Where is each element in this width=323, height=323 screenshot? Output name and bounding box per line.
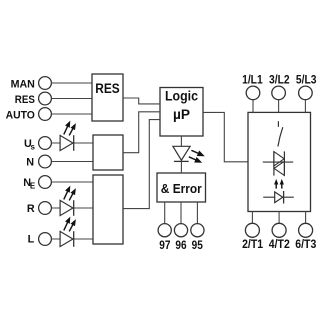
terminal 97 label — [159, 238, 170, 252]
wire Logic to Error block — [180, 136, 182, 173]
svg-text:96: 96 — [175, 238, 186, 252]
switch contact S1 — [278, 121, 283, 146]
svg-text:N: N — [26, 156, 34, 168]
wire N to supply box — [51, 161, 93, 163]
terminal 5/L3 label — [296, 73, 317, 87]
terminal 96 — [174, 224, 187, 237]
svg-text:4/T2: 4/T2 — [269, 237, 290, 251]
svg-text:RES: RES — [95, 81, 119, 96]
svg-text:Logic: Logic — [165, 89, 198, 104]
svg-text:R: R — [27, 203, 35, 215]
terminal L label — [28, 234, 35, 246]
svg-text:5/L3: 5/L3 — [296, 73, 317, 87]
block Logic uP U1 — [160, 88, 203, 137]
block RES (reset logic) — [92, 74, 123, 121]
terminal N label — [26, 156, 34, 168]
terminal AUTO label — [6, 110, 35, 122]
svg-text:E: E — [30, 181, 36, 190]
terminal RES — [39, 92, 52, 105]
svg-text:1/L1: 1/L1 — [242, 73, 263, 87]
terminal 1/L1 label — [242, 73, 263, 87]
terminal 2/T1 label — [242, 237, 263, 251]
svg-text:RES: RES — [15, 94, 35, 106]
wire Error to terminal 97 — [164, 202, 166, 224]
svg-text:s: s — [30, 142, 35, 151]
svg-text:97: 97 — [159, 238, 170, 252]
terminal 5/L3 — [299, 86, 313, 100]
svg-text:95: 95 — [192, 238, 203, 252]
svg-text:L: L — [28, 234, 35, 246]
optocoupler light arrows — [274, 179, 284, 189]
wire RES box to Logic pin1 — [123, 98, 160, 104]
terminal 95 — [191, 224, 204, 237]
terminal R label — [27, 203, 35, 215]
wire 1/L1 stem — [252, 100, 254, 113]
wire 6/T3 stem — [305, 212, 307, 224]
terminal MAN label — [11, 79, 35, 91]
wire 2/T1 stem — [251, 212, 253, 224]
triac Q1 — [263, 151, 293, 175]
terminal N — [39, 155, 52, 168]
terminal Us — [39, 137, 52, 150]
svg-text:AUTO: AUTO — [6, 110, 35, 122]
wire 4/T2 stem — [278, 212, 280, 224]
terminal 4/T2 label — [269, 237, 290, 251]
LED L — [60, 217, 76, 247]
svg-text:& Error: & Error — [161, 181, 202, 196]
terminal L — [39, 233, 52, 246]
wire AUTO to RES box — [51, 113, 92, 115]
block AND-Error — [157, 173, 206, 202]
wire MAN to RES box — [51, 82, 92, 84]
terminal 1/L1 — [246, 86, 260, 100]
terminal AUTO — [39, 108, 52, 121]
svg-text:6/T3: 6/T3 — [295, 237, 316, 251]
svg-text:2/T1: 2/T1 — [242, 237, 263, 251]
wire NE to input box — [51, 181, 93, 183]
terminal 6/T3 — [299, 223, 313, 237]
terminal 96 label — [175, 238, 186, 252]
terminal 97 — [158, 224, 171, 237]
block inputs NE/R/L — [93, 175, 123, 244]
terminal 95 label — [192, 238, 203, 252]
terminal 3/L2 label — [269, 73, 290, 87]
wire Logic to power block — [203, 112, 248, 161]
svg-text:3/L2: 3/L2 — [269, 73, 290, 87]
terminal Us label — [24, 138, 35, 152]
terminal NE — [39, 176, 52, 189]
terminal NE label — [23, 177, 36, 190]
terminal 4/T2 — [272, 223, 286, 237]
terminal 2/T1 — [245, 223, 259, 237]
terminal MAN — [39, 77, 52, 90]
terminal R — [39, 202, 52, 215]
wire supply box to Logic pin2 — [123, 112, 160, 153]
terminal 3/L2 — [272, 86, 286, 100]
wire Error to terminal 96 — [180, 202, 182, 224]
wire RES to RES box — [51, 98, 92, 100]
LED Us — [60, 121, 76, 151]
LED R — [60, 186, 76, 216]
svg-text:MAN: MAN — [11, 79, 35, 91]
block supply Us/N — [93, 135, 123, 170]
block power stage — [248, 112, 311, 211]
wire 3/L2 stem — [278, 100, 280, 113]
wire input box to Logic pin3 — [123, 120, 160, 209]
wire 5/L3 stem — [304, 100, 306, 113]
terminal 6/T3 label — [295, 237, 316, 251]
wire R to input box — [51, 207, 93, 209]
wire Error to terminal 95 — [196, 202, 198, 224]
svg-text:µP: µP — [173, 107, 190, 122]
LED status (down) — [173, 146, 205, 162]
wire Us to supply box — [51, 142, 93, 144]
terminal RES label — [15, 94, 35, 106]
LED optocoupler D1 — [263, 191, 294, 204]
wire L to input box — [51, 238, 93, 240]
